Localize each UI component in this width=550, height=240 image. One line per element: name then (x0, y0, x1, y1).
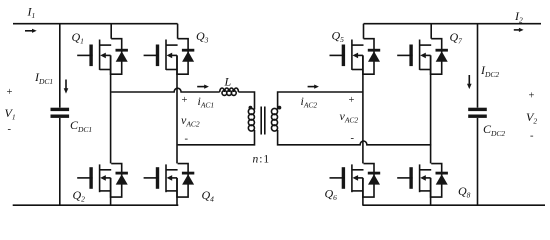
wire capacitor branch left lower (59, 118, 61, 205)
svg-text:Q5: Q5 (332, 29, 345, 45)
wire leg1 left lower (110, 178, 112, 205)
svg-text:CDC2: CDC2 (483, 122, 505, 138)
wire leg2 right upper (430, 24, 432, 39)
transistor Q3 (144, 39, 195, 74)
wire top bus left (13, 23, 178, 25)
transistor Q8 (397, 164, 448, 198)
svg-text:+: + (529, 91, 535, 102)
svg-text:V1: V1 (5, 106, 16, 122)
transformer primary winding (248, 108, 254, 131)
svg-text:-: - (530, 131, 534, 142)
svg-text:Q2: Q2 (73, 188, 86, 204)
transformer secondary polarity dot (278, 106, 282, 110)
label V2 port (526, 91, 537, 142)
svg-text:Q4: Q4 (202, 188, 215, 204)
arrow iAC2 (308, 86, 316, 88)
svg-text:+: + (349, 95, 355, 106)
svg-text:n : 1: n : 1 (253, 154, 270, 166)
svg-text:-: - (351, 133, 355, 144)
wire top bus right (364, 23, 542, 25)
svg-text:iAC2: iAC2 (301, 94, 318, 110)
label vAC2 left with polarity (181, 95, 200, 145)
wire leg2 right middle (430, 55, 432, 163)
svg-text:CDC1: CDC1 (70, 118, 92, 134)
wire leg1 left middle (110, 55, 112, 163)
wire capacitor branch right upper (477, 24, 479, 108)
wire secondary top (278, 92, 364, 110)
svg-text:Q6: Q6 (325, 187, 338, 203)
arrow I2 (514, 29, 520, 31)
arrow iAC1 (197, 86, 205, 88)
svg-text:Q1: Q1 (72, 30, 84, 46)
wire leg2 left upper (177, 24, 179, 39)
wire AC1 top with hump over leg2 (111, 88, 220, 92)
label vAC2 right with polarity (340, 95, 359, 144)
arrow IDC1 (65, 80, 67, 90)
svg-text:L: L (224, 75, 232, 89)
svg-text:Q7: Q7 (450, 30, 463, 46)
transformer core (261, 107, 265, 135)
svg-text:Q8: Q8 (458, 184, 471, 200)
svg-text:I1: I1 (27, 5, 36, 21)
svg-text:vAC2: vAC2 (181, 113, 200, 129)
wire capacitor branch right lower (477, 118, 479, 205)
wire AC1 bottom (178, 130, 255, 145)
wire leg1 left upper (110, 24, 112, 39)
wire leg1 right lower (362, 178, 364, 205)
transistor Q5 (330, 39, 381, 74)
wire leg2 left lower (176, 178, 178, 205)
svg-text:V2: V2 (526, 110, 537, 126)
wire bottom bus right (362, 204, 545, 206)
transistor Q1 (77, 39, 128, 74)
svg-text:IDC2: IDC2 (480, 63, 499, 79)
arrow IDC2 (468, 75, 470, 85)
capacitor CDC2 (468, 108, 487, 118)
transformer secondary winding (271, 108, 277, 131)
capacitor CDC1 (51, 108, 70, 118)
svg-text:IDC1: IDC1 (34, 70, 53, 86)
inductor L (220, 88, 239, 95)
svg-text:vAC2: vAC2 (340, 109, 359, 125)
transistor Q6 (330, 164, 381, 198)
svg-text:+: + (7, 87, 13, 98)
svg-text:-: - (185, 134, 189, 145)
wire capacitor branch left upper (59, 24, 61, 108)
wire leg1 right middle (362, 55, 364, 163)
transformer primary polarity dot (249, 106, 253, 110)
wire secondary bottom with hump over leg1 right (278, 130, 432, 145)
wire L to transformer (239, 92, 255, 110)
svg-text:-: - (8, 124, 12, 135)
arrow I1 (25, 30, 33, 32)
label V1 port (5, 87, 16, 135)
wire leg2 right lower (430, 178, 432, 205)
wire leg2 left middle (176, 55, 178, 163)
transistor Q4 (144, 164, 195, 198)
wire leg1 right upper (363, 24, 365, 39)
transistor Q2 (77, 164, 128, 198)
transistor Q7 (397, 39, 448, 74)
wire bottom bus left (13, 204, 179, 206)
svg-text:iAC1: iAC1 (198, 94, 215, 110)
svg-text:+: + (182, 95, 188, 106)
svg-text:I2: I2 (514, 9, 523, 25)
svg-text:Q3: Q3 (196, 29, 209, 45)
